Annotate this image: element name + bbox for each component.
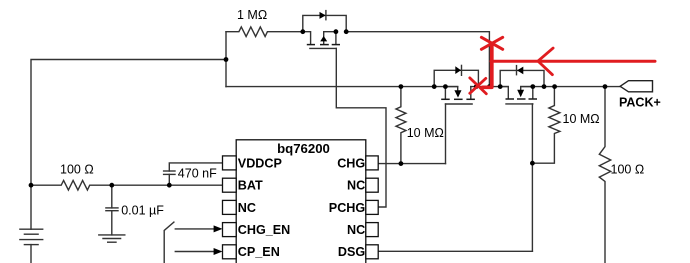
svg-text:CHG_EN: CHG_EN xyxy=(238,223,290,237)
svg-text:NC: NC xyxy=(347,223,365,237)
svg-text:CHG: CHG xyxy=(337,156,365,170)
svg-text:10 MΩ: 10 MΩ xyxy=(563,112,600,126)
svg-text:CP_EN: CP_EN xyxy=(238,245,280,259)
svg-text:PCHG: PCHG xyxy=(329,201,366,215)
svg-text:10 MΩ: 10 MΩ xyxy=(407,126,444,140)
svg-text:NC: NC xyxy=(238,201,256,215)
svg-text:PACK+: PACK+ xyxy=(619,96,661,110)
svg-text:BAT: BAT xyxy=(238,179,263,193)
svg-text:DSG: DSG xyxy=(338,245,365,259)
svg-text:470 nF: 470 nF xyxy=(178,166,217,180)
svg-text:VDDCP: VDDCP xyxy=(238,156,282,170)
svg-text:100 Ω: 100 Ω xyxy=(611,162,645,176)
svg-text:1 MΩ: 1 MΩ xyxy=(237,8,267,22)
svg-text:100 Ω: 100 Ω xyxy=(60,162,94,176)
svg-text:NC: NC xyxy=(347,179,365,193)
svg-text:bq76200: bq76200 xyxy=(277,141,330,156)
svg-text:0.01 µF: 0.01 µF xyxy=(121,203,164,217)
